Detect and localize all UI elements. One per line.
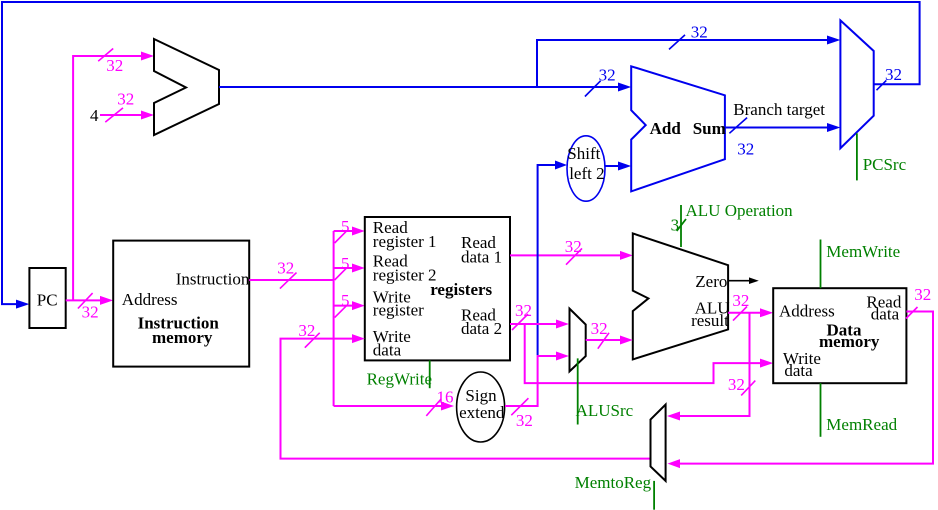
svg-text:ALU Operation: ALU Operation (686, 201, 794, 220)
wire: read data 1 to ALU input 1 (510, 251, 633, 260)
value label 32 on constant 4 wire (105, 90, 134, 123)
wire: instruction to read register 1 (334, 227, 365, 236)
svg-text:32: 32 (117, 90, 134, 109)
svg-text:32: 32 (106, 56, 123, 75)
svg-text:32: 32 (565, 237, 582, 256)
svg-text:32: 32 (914, 285, 931, 304)
value label 32 on ALUSrc mux output (591, 319, 609, 349)
svg-text:Address: Address (122, 290, 178, 309)
svg-text:registers: registers (430, 280, 492, 299)
svg-text:register 1: register 1 (373, 232, 437, 251)
svg-text:32: 32 (516, 411, 533, 430)
svg-text:32: 32 (599, 66, 616, 85)
value label 5 on read register 1 wire (335, 217, 350, 243)
wire: ALU result to data memory address and to MemtoReg mux input 0 (667, 308, 773, 420)
svg-text:memory: memory (819, 332, 880, 351)
svg-text:32: 32 (737, 140, 754, 159)
wire: instruction bus from instruction memory (249, 231, 333, 406)
value label 32 on ALU result wire (732, 291, 749, 321)
svg-text:MemtoReg: MemtoReg (575, 473, 652, 492)
svg-text:Zero: Zero (695, 272, 727, 291)
svg-text:Branch target: Branch target (733, 100, 825, 119)
svg-text:32: 32 (515, 301, 532, 320)
svg-text:ALUSrc: ALUSrc (576, 401, 634, 420)
value label 32 on read data 1 wire (565, 237, 582, 265)
svg-text:data: data (373, 341, 402, 360)
control PCSrc (857, 133, 907, 180)
PC register (29, 268, 65, 328)
svg-text:result: result (691, 311, 729, 330)
wire: PC output up to PC+4 adder input 1 (73, 52, 154, 301)
wire: shift left 2 output to branch adder input 2 (605, 162, 631, 171)
svg-text:Address: Address (779, 302, 835, 321)
value label 32 on instruction bus (277, 258, 296, 288)
wire: read data 2 to ALUSrc mux input 0 and data memory write data (510, 320, 773, 384)
svg-text:PCSrc: PCSrc (863, 155, 907, 174)
svg-text:4: 4 (90, 106, 99, 125)
wire: PC feedback loop from PCSrc mux output around top and left to PC input (2, 2, 920, 309)
value label 32 on read data 2 wire (512, 301, 532, 330)
wire: ALUSrc mux output to ALU input 2 (586, 336, 633, 345)
control RegWrite (367, 360, 432, 388)
instruction memory (113, 241, 250, 367)
wire: constant 4 to PC+4 adder input 2 (100, 111, 154, 120)
wire: PC output to instruction memory address (66, 296, 114, 305)
svg-text:RegWrite: RegWrite (367, 370, 432, 389)
svg-text:memory: memory (152, 328, 213, 347)
wire: instruction to read register 2 (334, 264, 365, 273)
registers (365, 217, 510, 360)
control ALUSrc (576, 358, 634, 424)
svg-text:PC: PC (37, 291, 58, 310)
sign extend (457, 372, 505, 442)
value label 32 on ALU result to MemtoReg branch (728, 375, 755, 395)
wire: instruction low bits to sign extend (334, 402, 454, 411)
wire: Zero output (728, 277, 759, 284)
svg-text:32: 32 (728, 375, 745, 394)
branch adder Add (631, 66, 726, 191)
value label 32 on PC+4 to branch adder wire (585, 66, 616, 97)
wire: PC+4 up and over to PCSrc mux input 0 (537, 36, 840, 88)
svg-text:32: 32 (691, 23, 708, 42)
svg-text:data 1: data 1 (461, 248, 502, 267)
value label 32 on read data wire (906, 285, 931, 319)
svg-text:data: data (784, 361, 813, 380)
svg-text:register 2: register 2 (373, 265, 437, 284)
ALU main (633, 233, 730, 359)
control MemRead (821, 383, 898, 437)
value label 16 on sign extend input wire (426, 388, 453, 416)
wire: data memory read data to MemtoReg mux input 1 (668, 312, 934, 469)
value label 5 on write register wire (335, 291, 350, 318)
svg-text:data 2: data 2 (461, 319, 502, 338)
value label 32 on PC to address wire (78, 293, 99, 321)
adder PC+4 (154, 39, 219, 135)
svg-text:Add: Add (650, 119, 682, 138)
wire: instruction to write register (334, 301, 365, 310)
wire: write data from MemtoReg mux back to registers (281, 334, 651, 459)
value label 32 on PCSrc mux output (877, 65, 903, 90)
control MemtoReg (575, 473, 655, 510)
wire: PC+4 adder output to branch adder input (219, 83, 631, 92)
value label 5 on read register 2 wire (335, 254, 350, 280)
control MemWrite (821, 240, 901, 289)
value label 32 on branch target wire (729, 118, 754, 159)
svg-text:32: 32 (82, 302, 99, 321)
svg-text:MemWrite: MemWrite (826, 242, 900, 261)
data memory (773, 288, 906, 383)
svg-text:Instruction: Instruction (176, 270, 250, 289)
svg-text:Shift: Shift (567, 144, 600, 163)
PCSrc mux (840, 20, 873, 148)
MemtoReg mux (651, 405, 666, 481)
svg-text:MemRead: MemRead (826, 415, 897, 434)
wire: blue branch offset segment up to shift left 2 (538, 161, 567, 356)
svg-text:32: 32 (298, 321, 315, 340)
svg-text:left 2: left 2 (569, 164, 604, 183)
value label 32 on write data wire (298, 321, 319, 348)
svg-text:data: data (871, 305, 900, 324)
svg-text:32: 32 (885, 65, 902, 84)
wire: sign extend output up to ALUSrc mux input 1 (magenta segment) (505, 352, 569, 407)
svg-text:16: 16 (437, 388, 454, 407)
svg-text:32: 32 (591, 319, 608, 338)
shift left 2 (567, 136, 605, 201)
value label 32 on sign extend output (511, 398, 533, 430)
ALUSrc mux (570, 309, 586, 372)
svg-text:32: 32 (277, 258, 294, 277)
svg-text:extend: extend (459, 403, 505, 422)
svg-text:Sum: Sum (693, 119, 726, 138)
value label 32 on PC to adder wire (98, 49, 123, 76)
svg-text:3: 3 (671, 216, 680, 235)
svg-text:register: register (373, 301, 424, 320)
wire: branch target to PCSrc mux input 1 (725, 123, 841, 132)
control ALU Operation (671, 201, 794, 247)
value label 32 on PC+4 to PCSrc mux wire (669, 23, 708, 50)
